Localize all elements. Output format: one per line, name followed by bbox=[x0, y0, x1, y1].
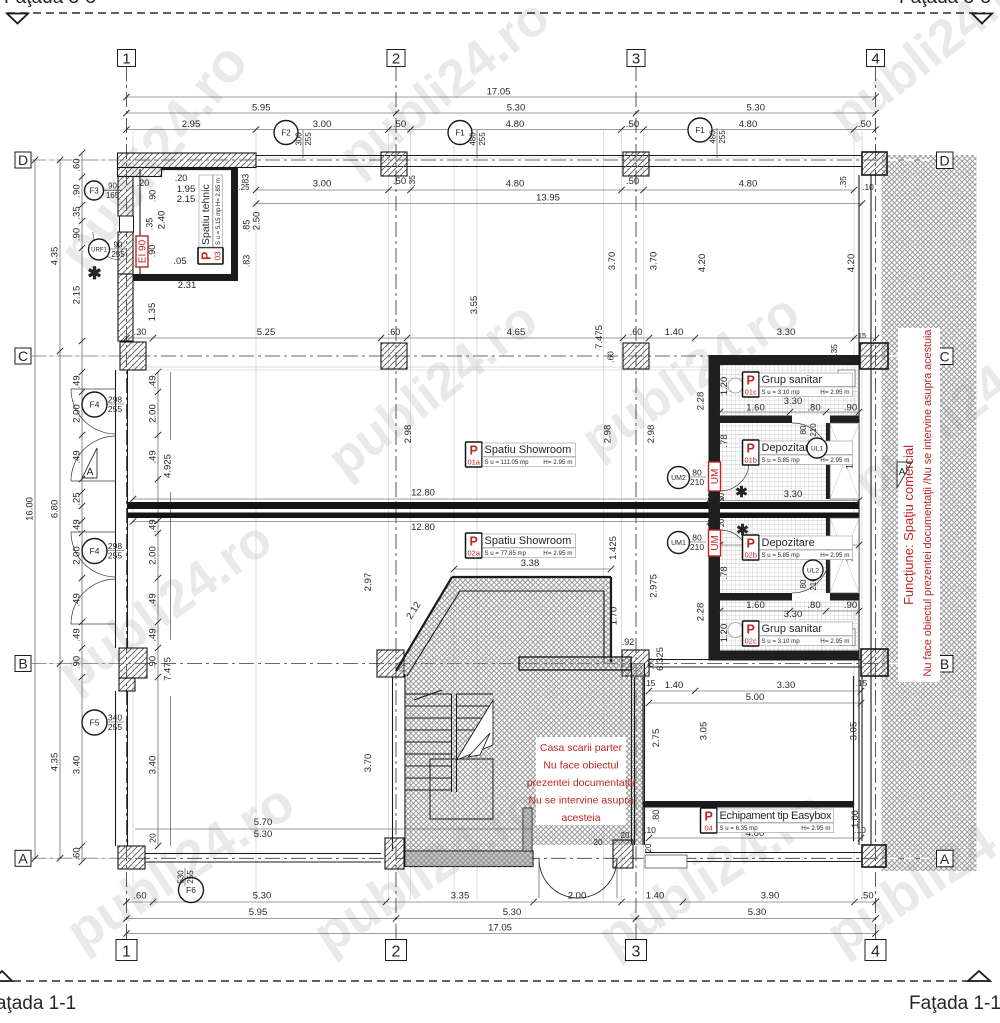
svg-text:2.98: 2.98 bbox=[646, 425, 657, 444]
svg-text:7.475: 7.475 bbox=[594, 325, 605, 349]
sanitary block top wall bbox=[709, 355, 860, 365]
shaft box X lower bbox=[830, 518, 859, 593]
svg-text:.80: .80 bbox=[807, 403, 820, 414]
white axis dash gaps over hatch bbox=[888, 159, 936, 161]
svg-text:H= 2.95 m: H= 2.95 m bbox=[543, 459, 572, 466]
svg-text:F6: F6 bbox=[186, 885, 196, 895]
axis marker C left bbox=[15, 348, 31, 364]
svg-text:EI 90: EI 90 bbox=[138, 239, 149, 263]
svg-text:D: D bbox=[18, 152, 28, 168]
svg-text:4.20: 4.20 bbox=[846, 254, 857, 273]
axis marker A left bbox=[15, 850, 31, 866]
right wall grid4 bbox=[858, 175, 860, 845]
svg-text:2: 2 bbox=[392, 944, 401, 961]
svg-text:.10: .10 bbox=[862, 182, 874, 192]
svg-text:Nu se intervine asupra: Nu se intervine asupra bbox=[528, 795, 633, 807]
svg-text:3.70: 3.70 bbox=[649, 252, 660, 271]
svg-text:A: A bbox=[940, 851, 950, 867]
svg-text:4.20: 4.20 bbox=[697, 254, 708, 273]
door marker UM2 circle bbox=[668, 467, 690, 489]
door UL1 arc bbox=[792, 423, 829, 460]
svg-text:.90: .90 bbox=[72, 656, 83, 669]
svg-text:D: D bbox=[939, 153, 949, 169]
svg-text:4.925: 4.925 bbox=[163, 454, 174, 478]
svg-text:P: P bbox=[747, 374, 755, 388]
svg-text:02a: 02a bbox=[467, 549, 480, 558]
svg-text:3.38: 3.38 bbox=[521, 558, 540, 569]
svg-text:4: 4 bbox=[871, 51, 879, 68]
column grid1 row A bbox=[118, 846, 145, 869]
svg-text:4.80: 4.80 bbox=[506, 179, 525, 190]
svg-text:Faţada 3-3: Faţada 3-3 bbox=[4, 0, 96, 8]
dimension row 2.95 3.00 .50 4.80 .50 4.80 .50 bbox=[127, 129, 876, 131]
column grid1 row B bbox=[119, 648, 147, 678]
svg-text:H= 2.85 m: H= 2.85 m bbox=[216, 178, 222, 206]
left storefront glazing B-A window F5 bbox=[115, 691, 117, 846]
svg-text:17.05: 17.05 bbox=[488, 923, 512, 934]
window marker F2 circle bbox=[274, 121, 298, 145]
svg-text:80: 80 bbox=[692, 533, 702, 543]
svg-text:.25: .25 bbox=[238, 183, 250, 192]
column grid4 row C bbox=[860, 343, 888, 369]
svg-text:.49: .49 bbox=[148, 593, 159, 606]
svg-text:A: A bbox=[86, 466, 93, 478]
svg-text:02c: 02c bbox=[745, 637, 757, 646]
svg-text:UM: UM bbox=[710, 469, 721, 485]
svg-text:2.98: 2.98 bbox=[603, 425, 614, 444]
svg-text:B: B bbox=[940, 656, 949, 672]
svg-text:20: 20 bbox=[706, 493, 715, 501]
svg-text:1: 1 bbox=[122, 944, 131, 961]
sanitary fixture circle lower bbox=[728, 623, 743, 638]
svg-text:H= 2.95 m: H= 2.95 m bbox=[820, 389, 849, 396]
room label P02b Depozitare bbox=[743, 535, 760, 560]
svg-text:4.35: 4.35 bbox=[50, 753, 61, 772]
svg-text:5.95: 5.95 bbox=[252, 103, 271, 114]
tech room walls bbox=[162, 168, 233, 170]
facade 3-3 left triangle marker bbox=[7, 14, 28, 24]
shaft box X upper bbox=[830, 423, 859, 499]
room label P01a Spatiu Showroom bbox=[466, 442, 483, 467]
svg-text:.90: .90 bbox=[72, 184, 83, 197]
svg-text:210: 210 bbox=[690, 477, 704, 487]
svg-text:4.65: 4.65 bbox=[507, 327, 526, 338]
middle dividing wall lower band bbox=[128, 513, 860, 519]
axis marker 4 top bbox=[867, 50, 885, 67]
svg-text:A: A bbox=[18, 850, 28, 866]
room label P02c Grup sanitar bbox=[743, 621, 760, 646]
svg-text:acesteia: acesteia bbox=[561, 812, 600, 824]
svg-text:Nu face obiectul: Nu face obiectul bbox=[543, 760, 618, 772]
svg-text:H= 2.95 m: H= 2.95 m bbox=[543, 550, 572, 557]
svg-text:2: 2 bbox=[392, 51, 400, 68]
svg-text:.05: .05 bbox=[173, 256, 186, 267]
svg-text:1.20: 1.20 bbox=[719, 624, 730, 643]
svg-text:F4: F4 bbox=[90, 546, 100, 556]
svg-text:F2: F2 bbox=[281, 128, 291, 137]
stair landing outline bbox=[430, 759, 493, 819]
facade 1-1 section dashed line bbox=[0, 980, 991, 982]
svg-text:255: 255 bbox=[108, 404, 122, 414]
svg-text:.60: .60 bbox=[606, 351, 616, 363]
svg-text:12.80: 12.80 bbox=[411, 488, 435, 499]
svg-text:prezentei documentaţii/: prezentei documentaţii/ bbox=[527, 777, 636, 789]
svg-text:3.90: 3.90 bbox=[761, 891, 780, 902]
axis marker 1 top bbox=[118, 50, 136, 67]
svg-text:Nu face obiectul prezentei doc: Nu face obiectul prezentei documentaţii … bbox=[922, 329, 934, 677]
svg-text:5.30: 5.30 bbox=[503, 907, 522, 918]
sanitary fixture rect lower bbox=[838, 629, 855, 646]
svg-text:1.35: 1.35 bbox=[147, 303, 158, 322]
svg-text:.60: .60 bbox=[72, 847, 83, 860]
svg-text:3: 3 bbox=[632, 944, 641, 961]
svg-text:2.50: 2.50 bbox=[252, 212, 263, 231]
column grid2 row C bbox=[381, 343, 407, 369]
svg-text:20: 20 bbox=[644, 843, 653, 852]
svg-text:F1: F1 bbox=[455, 128, 465, 137]
svg-text:3.30: 3.30 bbox=[784, 609, 803, 620]
shaft wall vertical 2 bbox=[826, 518, 830, 593]
svg-text:5.00: 5.00 bbox=[746, 692, 765, 703]
svg-text:3.30: 3.30 bbox=[784, 489, 803, 500]
svg-text:2.28: 2.28 bbox=[696, 392, 707, 411]
axis marker 1 bottom bbox=[116, 940, 137, 961]
svg-text:aţada 1-1: aţada 1-1 bbox=[0, 993, 76, 1014]
svg-text:.50: .50 bbox=[393, 119, 406, 130]
column grid3 row B bbox=[622, 650, 649, 676]
svg-text:04: 04 bbox=[705, 824, 713, 833]
room label P01b Depozitare bbox=[743, 440, 760, 465]
dimension row 5.95 5.30 5.30 bbox=[127, 112, 876, 114]
dimension chain 16.00 far left bbox=[34, 160, 36, 858]
svg-text:20: 20 bbox=[621, 831, 630, 840]
dimension chain left detailed bbox=[81, 153, 83, 862]
svg-text:3.55: 3.55 bbox=[469, 296, 480, 315]
window marker F1b circle bbox=[688, 118, 712, 142]
svg-text:.35: .35 bbox=[407, 175, 417, 187]
svg-text:3.00: 3.00 bbox=[313, 119, 332, 130]
svg-text:.35: .35 bbox=[72, 206, 83, 219]
svg-text:2.97: 2.97 bbox=[363, 573, 374, 592]
svg-text:1.60: 1.60 bbox=[746, 403, 765, 414]
svg-text:S u = 111.05 mp: S u = 111.05 mp bbox=[485, 459, 530, 466]
svg-text:Casa scarii parter: Casa scarii parter bbox=[540, 742, 623, 754]
svg-text:2.00: 2.00 bbox=[148, 546, 159, 565]
stair entry threshold piece bbox=[613, 840, 633, 868]
svg-text:480: 480 bbox=[469, 132, 478, 146]
svg-text:.15: .15 bbox=[644, 678, 656, 688]
svg-text:.60: .60 bbox=[133, 891, 146, 902]
column grid3 row D bbox=[623, 152, 649, 176]
dimension chain inner right of wall bbox=[157, 372, 159, 846]
svg-text:3.30: 3.30 bbox=[777, 680, 796, 691]
svg-text:S u = 3.10 mp: S u = 3.10 mp bbox=[762, 638, 801, 645]
stair direction arrow bbox=[468, 733, 490, 757]
stair top wall outline bbox=[452, 576, 611, 578]
svg-text:255: 255 bbox=[108, 722, 122, 732]
left storefront glazing C-B bbox=[115, 370, 117, 648]
column grid2 row D bbox=[381, 152, 407, 176]
easybox room walls bbox=[634, 677, 636, 845]
grid axis row lines A-D bbox=[31, 159, 936, 161]
svg-text:.90: .90 bbox=[148, 190, 158, 203]
easybox dimension texts bbox=[649, 690, 861, 692]
stair left wall outline bbox=[392, 677, 394, 851]
svg-text:01c: 01c bbox=[745, 388, 757, 397]
svg-text:3.40: 3.40 bbox=[148, 756, 159, 775]
svg-text:13.95: 13.95 bbox=[536, 193, 560, 204]
svg-text:UL2: UL2 bbox=[807, 567, 819, 574]
axis marker C right bbox=[937, 348, 954, 365]
svg-text:✱: ✱ bbox=[736, 522, 749, 539]
svg-text:5.95: 5.95 bbox=[249, 907, 268, 918]
svg-text:4: 4 bbox=[871, 944, 880, 961]
svg-text:.49: .49 bbox=[148, 450, 159, 463]
svg-text:3.35: 3.35 bbox=[451, 891, 470, 902]
door URF1 swing arc bbox=[93, 232, 121, 260]
svg-text:P: P bbox=[747, 623, 755, 637]
svg-text:S u = 3.10 mp: S u = 3.10 mp bbox=[762, 389, 801, 396]
svg-text:3.30: 3.30 bbox=[784, 396, 803, 407]
door UL2 arc bbox=[792, 556, 829, 593]
top wall hatched spatiu tehnic bbox=[118, 153, 257, 168]
svg-text:P: P bbox=[747, 442, 755, 456]
door marker F4 lower circle bbox=[82, 539, 107, 564]
svg-text:4.35: 4.35 bbox=[50, 247, 61, 266]
red label UM door 2 bbox=[709, 462, 722, 491]
svg-text:Spatiu Showroom: Spatiu Showroom bbox=[485, 444, 572, 456]
svg-text:3.00: 3.00 bbox=[313, 179, 332, 190]
svg-text:P: P bbox=[470, 444, 478, 458]
red note casa scarii parter bbox=[536, 737, 626, 825]
svg-text:4.80: 4.80 bbox=[739, 179, 758, 190]
sanitary block left wall bbox=[709, 355, 721, 462]
red label UM door 1 bbox=[709, 530, 722, 556]
svg-text:12.80: 12.80 bbox=[411, 522, 435, 533]
extension lines horizontal left bbox=[31, 159, 126, 161]
svg-text:2.00: 2.00 bbox=[72, 404, 83, 423]
stair rail lines bbox=[451, 694, 453, 792]
beam line below row C bbox=[133, 369, 708, 371]
svg-text:03: 03 bbox=[214, 251, 223, 260]
dimension row 3.00 .50 4.80 .50 4.80 below wall bbox=[256, 189, 854, 191]
svg-text:H= 2.95 m: H= 2.95 m bbox=[820, 638, 849, 645]
svg-text:S u = 5.85 mp: S u = 5.85 mp bbox=[762, 457, 801, 464]
svg-text:C: C bbox=[18, 348, 28, 364]
svg-text:5.25: 5.25 bbox=[257, 327, 276, 338]
svg-text:F4: F4 bbox=[90, 400, 100, 410]
door marker F3 circle bbox=[85, 181, 104, 200]
svg-text:.20: .20 bbox=[137, 178, 150, 188]
svg-text:3.70: 3.70 bbox=[607, 252, 618, 271]
svg-text:.25: .25 bbox=[72, 492, 83, 505]
sanitary partition wall 2 bbox=[720, 593, 792, 601]
axis marker B right bbox=[937, 656, 954, 673]
wall bar row B between stair and grid3 bbox=[519, 657, 631, 670]
svg-text:1.40: 1.40 bbox=[665, 680, 684, 691]
svg-text:.60: .60 bbox=[388, 327, 401, 337]
svg-text:C: C bbox=[939, 349, 949, 365]
dimension 12.80 above middle wall bbox=[133, 498, 710, 500]
svg-text:300: 300 bbox=[295, 132, 304, 146]
svg-text:.92: .92 bbox=[622, 637, 635, 647]
facade 1-1 right triangle marker bbox=[968, 971, 990, 981]
sanitary block floor tiles room grup sanitar 1 bbox=[720, 365, 859, 416]
svg-text:.35: .35 bbox=[838, 176, 848, 188]
entrance double door arcs bbox=[539, 859, 578, 898]
svg-text:298: 298 bbox=[108, 395, 122, 405]
svg-text:UM1: UM1 bbox=[671, 540, 686, 547]
svg-text:90: 90 bbox=[108, 182, 117, 191]
door marker UM1 circle bbox=[668, 532, 690, 554]
door UM2 arc bbox=[720, 462, 749, 491]
svg-text:.85: .85 bbox=[242, 220, 252, 233]
svg-text:S u = 5.15 mp: S u = 5.15 mp bbox=[216, 207, 222, 245]
svg-text:20: 20 bbox=[594, 838, 603, 847]
stair block crosshatch region bbox=[396, 577, 645, 851]
svg-text:UM2: UM2 bbox=[671, 475, 686, 482]
svg-text:20: 20 bbox=[717, 519, 726, 527]
svg-text:UM: UM bbox=[710, 535, 721, 551]
svg-text:2.15: 2.15 bbox=[72, 286, 83, 305]
svg-text:.10: .10 bbox=[644, 825, 656, 835]
axis marker D left bbox=[15, 152, 31, 168]
svg-text:3.05: 3.05 bbox=[699, 722, 710, 741]
extension lines vertical bbox=[132, 131, 134, 900]
svg-text:1.425: 1.425 bbox=[608, 536, 619, 560]
svg-text:5.30: 5.30 bbox=[254, 829, 273, 840]
svg-text:.60: .60 bbox=[630, 327, 643, 337]
svg-text:255: 255 bbox=[304, 132, 313, 146]
dimension row bottom 17.05 bbox=[127, 933, 876, 935]
axis marker 2 bottom bbox=[386, 940, 407, 961]
svg-text:1.40: 1.40 bbox=[665, 327, 684, 338]
dimension row bottom 5.95 5.30 5.30 bbox=[127, 918, 876, 920]
svg-text:340: 340 bbox=[108, 713, 122, 723]
left wall upper hatched bbox=[118, 177, 133, 217]
svg-text:.78: .78 bbox=[719, 434, 730, 447]
stair right upper wall outline bbox=[610, 577, 612, 663]
door UM1 arc bbox=[720, 530, 749, 559]
svg-text:255: 255 bbox=[718, 130, 727, 144]
axis marker 2 top bbox=[387, 50, 405, 67]
svg-text:.35: .35 bbox=[829, 344, 839, 356]
svg-text:P: P bbox=[705, 810, 713, 824]
svg-text:1.70: 1.70 bbox=[609, 607, 620, 626]
svg-text:Grup sanitar: Grup sanitar bbox=[762, 374, 823, 386]
svg-text:20: 20 bbox=[717, 493, 726, 501]
svg-text:URF1: URF1 bbox=[91, 248, 107, 254]
bottom wall window F6 bbox=[145, 853, 381, 855]
svg-text:6.80: 6.80 bbox=[50, 500, 61, 519]
svg-text:165: 165 bbox=[106, 191, 120, 200]
svg-text:2.28: 2.28 bbox=[696, 603, 707, 622]
svg-text:F1: F1 bbox=[695, 126, 705, 135]
sanitary block bottom wall bbox=[709, 651, 860, 661]
shaft wall vertical 1 bbox=[826, 423, 830, 499]
door marker URF1 circle bbox=[89, 239, 110, 260]
red note functiune spatiu comercial vertical bbox=[898, 328, 940, 682]
column grid2 row B bbox=[377, 650, 404, 677]
svg-text:3.30: 3.30 bbox=[777, 327, 796, 338]
door marker F5 circle bbox=[82, 710, 107, 735]
svg-text:H= 2.95 m: H= 2.95 m bbox=[801, 825, 830, 832]
room label P02a Spatiu Showroom bbox=[466, 533, 483, 558]
svg-text:255: 255 bbox=[186, 870, 195, 884]
window marker F6 circle bbox=[179, 878, 204, 903]
svg-text:F3: F3 bbox=[89, 186, 99, 195]
svg-text:.78: .78 bbox=[719, 566, 730, 579]
svg-text:S u = 6.35 mp: S u = 6.35 mp bbox=[720, 825, 759, 832]
door marker UL2 circle bbox=[803, 560, 823, 580]
svg-text:.49: .49 bbox=[72, 375, 83, 388]
svg-text:480: 480 bbox=[709, 130, 718, 144]
stair column bottom left bbox=[385, 838, 404, 869]
svg-text:.90: .90 bbox=[844, 403, 857, 414]
svg-text:.50: .50 bbox=[626, 119, 639, 130]
svg-text:2.00: 2.00 bbox=[72, 546, 83, 565]
svg-text:1.60: 1.60 bbox=[746, 600, 765, 611]
svg-text:Depozitare: Depozitare bbox=[762, 537, 815, 549]
svg-text:.35: .35 bbox=[145, 218, 155, 231]
svg-text:3.40: 3.40 bbox=[72, 756, 83, 775]
dimension chain 4.35 6.80 4.35 left bbox=[59, 160, 61, 858]
svg-text:16.00: 16.00 bbox=[25, 497, 36, 521]
red label EI 90 bbox=[136, 236, 149, 267]
svg-text:90: 90 bbox=[114, 241, 123, 250]
top window band lines bbox=[256, 155, 862, 157]
svg-text:298: 298 bbox=[108, 541, 122, 551]
svg-text:.49: .49 bbox=[148, 375, 159, 388]
svg-text:02b: 02b bbox=[744, 551, 757, 560]
stair right wall outline bbox=[631, 663, 633, 845]
svg-text:2.15: 2.15 bbox=[177, 194, 196, 205]
svg-text:F5: F5 bbox=[90, 718, 100, 728]
svg-text:5.30: 5.30 bbox=[253, 891, 272, 902]
svg-text:Echipament tip Easybox: Echipament tip Easybox bbox=[720, 810, 833, 822]
dimension row 17.05 top bbox=[127, 96, 876, 98]
svg-text:210: 210 bbox=[690, 542, 704, 552]
axis marker D right bbox=[937, 152, 954, 169]
door pair F4 upper arcs bbox=[71, 389, 116, 434]
svg-text:2.00: 2.00 bbox=[148, 404, 159, 423]
svg-text:.49: .49 bbox=[148, 628, 159, 641]
axis marker 3 top bbox=[627, 50, 645, 67]
sanitary fixture circle upper bbox=[728, 378, 743, 393]
column grid4 row A bbox=[862, 845, 886, 867]
svg-text:✱: ✱ bbox=[87, 264, 101, 283]
facade 3-3 right triangle marker bbox=[972, 14, 992, 24]
svg-text:80: 80 bbox=[799, 579, 808, 588]
svg-text:.49: .49 bbox=[72, 519, 83, 532]
dimension 12.80 below middle wall bbox=[133, 521, 710, 523]
svg-text:Spatiu tehnic: Spatiu tehnic bbox=[200, 184, 212, 245]
svg-text:Faţada 3-3: Faţada 3-3 bbox=[899, 0, 991, 8]
column grid4 row D bbox=[862, 152, 887, 175]
dimension row bottom .60 5.30 3.35 2.00 1.40 3.90 .50 bbox=[127, 901, 876, 903]
svg-text:2.98: 2.98 bbox=[403, 425, 414, 444]
svg-text:.83: .83 bbox=[242, 255, 252, 268]
svg-text:S u = 5.85 mp: S u = 5.85 mp bbox=[762, 552, 801, 559]
svg-text:S u = 77.85 mp: S u = 77.85 mp bbox=[485, 550, 527, 557]
svg-text:01b: 01b bbox=[744, 456, 757, 465]
svg-text:5.30: 5.30 bbox=[747, 103, 766, 114]
axis marker A right bbox=[937, 850, 954, 867]
svg-text:.50: .50 bbox=[393, 176, 406, 187]
svg-text:4.80: 4.80 bbox=[506, 119, 525, 130]
svg-text:01a: 01a bbox=[467, 458, 480, 467]
svg-text:.90: .90 bbox=[148, 656, 159, 669]
